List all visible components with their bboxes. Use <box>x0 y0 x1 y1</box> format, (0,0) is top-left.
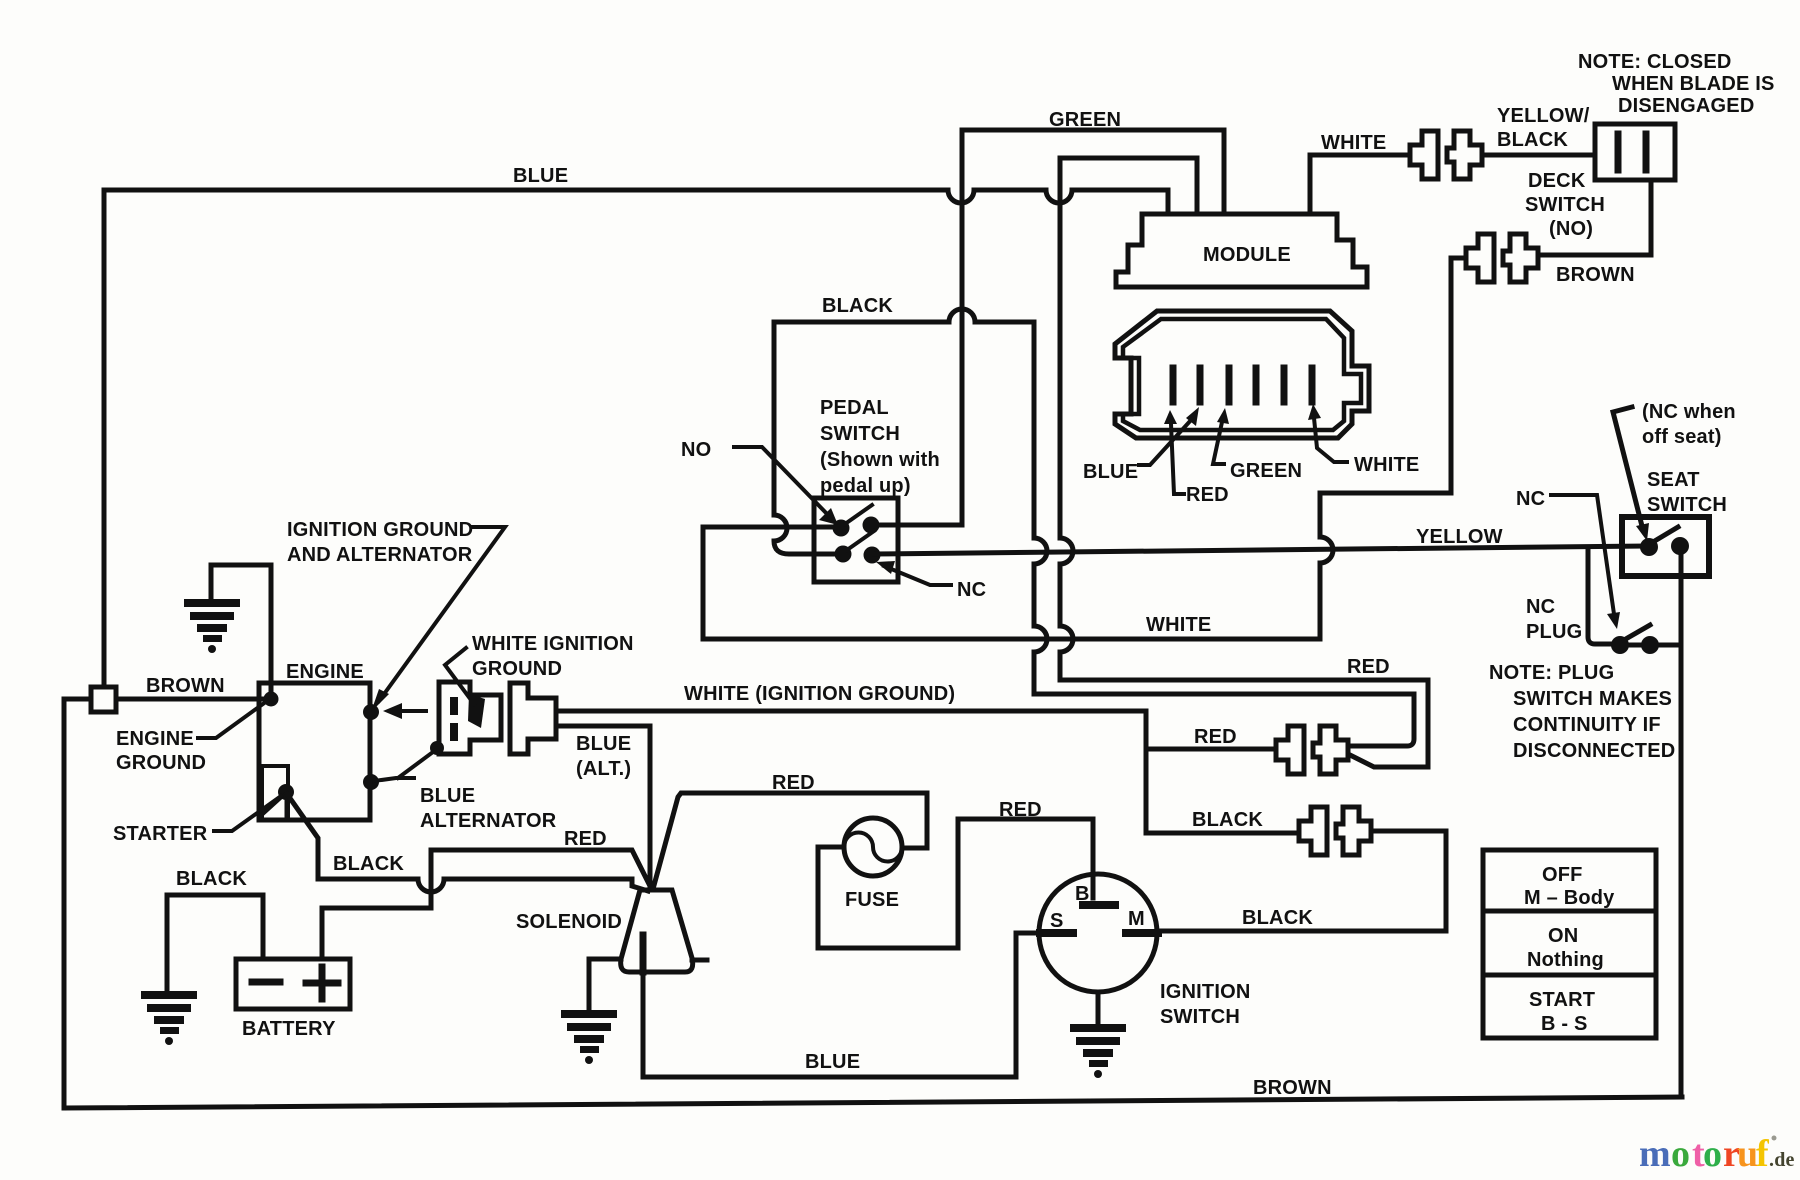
svg-text:WHITE (IGNITION GROUND): WHITE (IGNITION GROUND) <box>684 683 955 705</box>
svg-text:BATTERY: BATTERY <box>242 1018 336 1040</box>
solenoid body <box>621 890 693 972</box>
annotation line white ignition ground to pin <box>445 648 474 704</box>
svg-text:BROWN: BROWN <box>1253 1077 1332 1099</box>
pedal switch box <box>814 498 898 582</box>
wire RED battery positive to solenoid <box>322 850 651 959</box>
ignition terminal S bar <box>1040 929 1073 937</box>
engine connector housing (female) <box>439 682 501 754</box>
node pedal upper-right contact dot <box>863 517 880 534</box>
pin housing upper <box>450 697 458 715</box>
module connector pin 5 <box>1281 368 1288 402</box>
annotation line NC to plug contact <box>1551 495 1614 614</box>
annotation line NC-when-off-seat to seat contact <box>1613 407 1643 530</box>
svg-text:GROUND: GROUND <box>472 658 562 680</box>
svg-text:S: S <box>1050 910 1064 932</box>
connector pair deck brown (left half) <box>1466 234 1494 282</box>
wire deck switch to brown connector <box>1538 180 1651 255</box>
svg-text:BLACK: BLACK <box>1497 129 1568 151</box>
wire BROWN square to engine <box>116 697 262 702</box>
svg-text:START: START <box>1529 989 1595 1011</box>
ignition terminal B bar <box>1083 901 1115 909</box>
pedal lower lever <box>847 531 874 550</box>
svg-text:OFF: OFF <box>1542 864 1583 886</box>
svg-text:SWITCH: SWITCH <box>820 423 900 445</box>
svg-text:GREEN: GREEN <box>1230 460 1302 482</box>
wire brown connector down and left to pedal NO (white wire) <box>703 258 1466 639</box>
wire WHITE (IGNITION GROUND) long <box>556 711 1299 833</box>
svg-text:DISCONNECTED: DISCONNECTED <box>1513 740 1675 762</box>
svg-text:IGNITION GROUND: IGNITION GROUND <box>287 519 473 541</box>
pedal upper lever <box>845 505 872 524</box>
logo motoruf.de <box>1639 1133 1795 1175</box>
node pedal NO contact dot <box>833 520 850 537</box>
svg-text:SWITCH MAKES: SWITCH MAKES <box>1513 688 1672 710</box>
seat switch lever <box>1653 527 1678 542</box>
svg-text:BLACK: BLACK <box>822 295 893 317</box>
ground battery (symbol) <box>141 991 197 1045</box>
svg-text:NO: NO <box>681 439 711 461</box>
node pedal lower-left contact dot <box>835 546 852 563</box>
wire NC plug branch from yellow <box>1588 549 1611 644</box>
svg-text:SWITCH: SWITCH <box>1160 1006 1240 1028</box>
module connector pin 1 <box>1170 368 1177 402</box>
svg-text:(NO): (NO) <box>1549 218 1593 240</box>
svg-text:ENGINE: ENGINE <box>116 728 194 750</box>
svg-text:NOTE: PLUG: NOTE: PLUG <box>1489 662 1614 684</box>
svg-text:f: f <box>1756 1133 1770 1175</box>
battery box <box>236 959 350 1009</box>
starter pivot line <box>285 793 288 818</box>
svg-text:RED: RED <box>1194 726 1237 748</box>
ignition terminal M bar <box>1126 929 1158 937</box>
svg-text:FUSE: FUSE <box>845 889 899 911</box>
svg-text:RED: RED <box>1347 656 1390 678</box>
wire BLUE top (left border top horizontal, jumps at x=962 and x=1060, to module pin) <box>104 190 1168 695</box>
NC plug lever <box>1624 625 1650 640</box>
svg-text:M: M <box>1128 908 1145 930</box>
svg-text:BLACK: BLACK <box>176 868 247 890</box>
solenoid left terminal <box>589 957 621 962</box>
svg-text:(NC when: (NC when <box>1642 401 1736 423</box>
node starter contact dot <box>278 784 294 800</box>
deck switch box <box>1595 124 1675 180</box>
wire NC plug to right border <box>1620 643 1681 648</box>
svg-text:ON: ON <box>1548 925 1578 947</box>
svg-text:DECK: DECK <box>1528 170 1586 192</box>
node seat switch left contact dot <box>1640 538 1658 556</box>
wire BLACK starter to solenoid (jumps red riser) <box>287 794 648 892</box>
svg-text:NOTE: CLOSED: NOTE: CLOSED <box>1578 51 1732 73</box>
node NC plug left contact dot <box>1611 636 1629 654</box>
svg-text:o: o <box>1671 1133 1690 1175</box>
ground engine (symbol) <box>184 599 240 653</box>
svg-text:(ALT.): (ALT.) <box>576 758 631 780</box>
engine plug male <box>510 683 556 754</box>
svg-text:SWITCH: SWITCH <box>1525 194 1605 216</box>
annotation line NC to contact <box>884 566 951 585</box>
fuse sine symbol <box>844 833 902 862</box>
svg-text:Nothing: Nothing <box>1527 949 1604 971</box>
svg-text:GREEN: GREEN <box>1049 109 1121 131</box>
svg-text:CONTINUITY IF: CONTINUITY IF <box>1513 714 1661 736</box>
svg-text:BLUE: BLUE <box>513 165 568 187</box>
svg-text:PLUG: PLUG <box>1526 621 1582 643</box>
connector pair deck white (right half) <box>1447 131 1482 179</box>
deck switch pin left <box>1615 134 1622 170</box>
seat switch box <box>1622 517 1709 576</box>
svg-text:WHEN BLADE IS: WHEN BLADE IS <box>1612 73 1775 95</box>
svg-text:DISENGAGED: DISENGAGED <box>1618 95 1754 117</box>
svg-text:BLUE: BLUE <box>576 733 631 755</box>
svg-text:IGNITION: IGNITION <box>1160 981 1251 1003</box>
svg-text:BLUE: BLUE <box>1083 461 1138 483</box>
svg-text:off seat): off seat) <box>1642 426 1722 448</box>
svg-text:MODULE: MODULE <box>1203 244 1291 266</box>
solenoid right terminal <box>692 958 707 963</box>
annotation line WHITE pin <box>1314 418 1347 462</box>
wire BLUE (ALT.) <box>556 726 650 888</box>
svg-text:NC: NC <box>1516 488 1545 510</box>
annotation arrow left (connector to engine dot) <box>398 709 426 713</box>
connector pair deck white (left half) <box>1410 131 1438 179</box>
annotation line starter to dot <box>214 796 281 831</box>
module connector pin 6 <box>1309 368 1316 402</box>
svg-text:RED: RED <box>999 799 1042 821</box>
annotation line engine ground to dot <box>198 701 267 738</box>
wire RED solenoid to fuse <box>653 793 927 889</box>
wire BLUE solenoid to ignition S <box>643 933 1040 1077</box>
connector pair deck brown (right half) <box>1503 234 1538 282</box>
annotation line NO to contact <box>734 447 830 517</box>
svg-text:BLACK: BLACK <box>1242 907 1313 929</box>
node seat switch right contact dot <box>1671 537 1689 555</box>
wire left border (square to bottom) <box>64 699 91 1108</box>
svg-text:WHITE: WHITE <box>1321 132 1386 154</box>
ignition switch circle <box>1039 874 1157 992</box>
ground solenoid (symbol) <box>561 1010 617 1064</box>
legend table box <box>1483 850 1656 1038</box>
svg-text:BROWN: BROWN <box>146 675 225 697</box>
svg-text:.de: .de <box>1769 1149 1795 1171</box>
svg-text:SOLENOID: SOLENOID <box>516 911 622 933</box>
svg-text:RED: RED <box>564 828 607 850</box>
node engine ground dot <box>264 692 279 707</box>
wire RED fuse branch to red connector <box>1146 747 1275 752</box>
wire WHITE module loop to deck switch and pedal NO <box>1310 155 1409 214</box>
svg-text:AND ALTERNATOR: AND ALTERNATOR <box>287 544 473 566</box>
wire bottom BROWN <box>64 1097 1682 1108</box>
svg-text:GROUND: GROUND <box>116 752 206 774</box>
node housing corner dot <box>430 741 444 755</box>
svg-text:BLUE: BLUE <box>420 785 475 807</box>
node pedal NC contact dot <box>864 547 881 564</box>
wire BLACK ignition M to connector <box>1158 831 1446 931</box>
module connector inner shell <box>1123 319 1361 430</box>
module box <box>1116 214 1367 287</box>
module connector pin 2 <box>1197 368 1204 402</box>
battery plus symbol <box>306 967 338 999</box>
svg-text:STARTER: STARTER <box>113 823 208 845</box>
annotation line blue alternator to engine dot <box>374 778 414 781</box>
node ignition ground/alternator dot <box>363 704 379 720</box>
svg-text:SEAT: SEAT <box>1647 469 1700 491</box>
wire solenoid to ground <box>587 959 592 1010</box>
node NC plug right contact dot <box>1641 636 1659 654</box>
svg-text:RED: RED <box>1186 484 1229 506</box>
svg-text:m: m <box>1639 1133 1671 1175</box>
annotation line RED pin <box>1171 424 1184 494</box>
svg-text:BLUE: BLUE <box>805 1051 860 1073</box>
starter lever <box>262 794 284 814</box>
wire GREEN module to pedal upper-right contact <box>871 130 1224 525</box>
svg-text:SWITCH: SWITCH <box>1647 494 1727 516</box>
annotation line ignition ground to engine dot <box>379 527 505 701</box>
svg-text:B: B <box>1075 883 1090 905</box>
svg-text:NC: NC <box>957 579 986 601</box>
legend divider 2 <box>1483 973 1656 978</box>
wire RED fuse to ignition B <box>818 819 1093 948</box>
module connector pin 4 <box>1253 368 1260 402</box>
svg-text:(Shown with: (Shown with <box>820 449 940 471</box>
pin housing pointed (white ignition ground pin) <box>468 694 485 728</box>
ground ignition (symbol) <box>1070 1024 1126 1078</box>
svg-text:WHITE IGNITION: WHITE IGNITION <box>472 633 634 655</box>
deck switch pin right <box>1643 134 1650 170</box>
svg-text:BROWN: BROWN <box>1556 264 1635 286</box>
svg-text:RED: RED <box>772 772 815 794</box>
svg-text:NC: NC <box>1526 596 1555 618</box>
svg-text:WHITE: WHITE <box>1146 614 1211 636</box>
battery minus symbol <box>252 979 280 986</box>
wire GREEN inner loop module to red connector (jumps yellow+white) <box>1060 158 1428 767</box>
wire right border (seat switch to bottom) <box>1679 546 1684 1097</box>
module connector outer shell <box>1115 311 1369 438</box>
legend divider 1 <box>1483 909 1656 914</box>
annotation line blue alternator to connector dot <box>398 749 437 778</box>
svg-text:ENGINE: ENGINE <box>286 661 364 683</box>
wire YELLOW pedal NC to seat switch <box>872 546 1645 554</box>
svg-text:YELLOW: YELLOW <box>1416 526 1503 548</box>
pin housing lower <box>450 723 458 741</box>
svg-text:BLACK: BLACK <box>333 853 404 875</box>
annotation line BLUE pin <box>1139 419 1192 465</box>
wire BLACK pedal loop (NC contact to red/black connector, jumps wires) <box>774 309 1414 746</box>
svg-text:pedal up): pedal up) <box>820 475 911 497</box>
connector pair red (left half) <box>1276 726 1304 774</box>
starter sub-box <box>262 766 288 820</box>
svg-text:BLACK: BLACK <box>1192 809 1263 831</box>
engine box <box>259 683 370 820</box>
connector pair red (right half) <box>1313 726 1348 774</box>
svg-text:M – Body: M – Body <box>1524 887 1615 909</box>
solenoid plunger bar <box>640 935 647 972</box>
module connector pin 3 <box>1226 368 1233 402</box>
node splice square (left) <box>91 687 116 712</box>
wire ignition to ground <box>1096 992 1101 1024</box>
wire engine ground loop <box>211 565 271 696</box>
svg-text:PEDAL: PEDAL <box>820 397 889 419</box>
svg-text:o: o <box>1703 1133 1722 1175</box>
svg-text:WHITE: WHITE <box>1354 454 1419 476</box>
fuse circle <box>844 818 902 876</box>
connector pair black (right half) <box>1336 807 1371 855</box>
connector pair black (left half) <box>1299 807 1327 855</box>
node blue alternator dot <box>363 774 379 790</box>
wire BLACK battery negative to ground <box>167 895 263 991</box>
annotation line GREEN pin <box>1213 422 1224 464</box>
svg-text:ALTERNATOR: ALTERNATOR <box>420 810 557 832</box>
svg-text:B - S: B - S <box>1541 1013 1588 1035</box>
wire deck connector to deck switch <box>1482 153 1595 158</box>
svg-text:YELLOW/: YELLOW/ <box>1497 105 1590 127</box>
